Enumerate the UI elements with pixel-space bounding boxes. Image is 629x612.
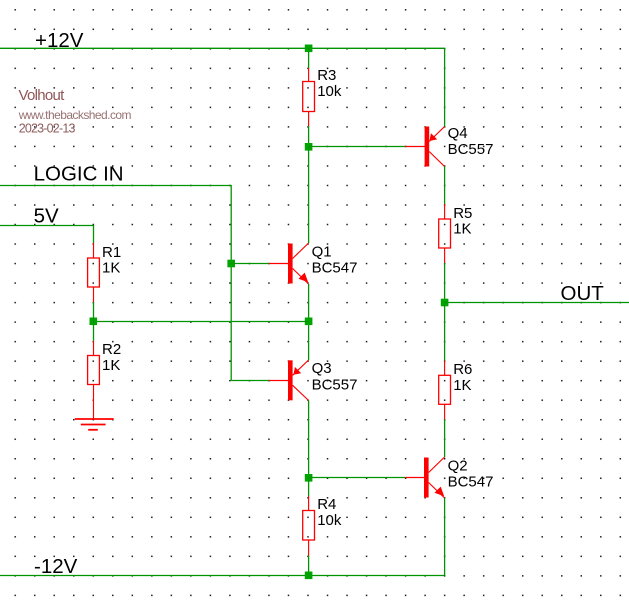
svg-text:BC547: BC547 bbox=[312, 260, 358, 277]
wire R3 bottom (green) bbox=[308, 126, 310, 147]
svg-text:www.thebackshed.com: www.thebackshed.com bbox=[18, 108, 132, 122]
wire 5V bbox=[0, 226, 94, 244]
svg-text:1K: 1K bbox=[453, 377, 471, 394]
svg-text:Q3: Q3 bbox=[312, 360, 332, 377]
svg-text:-12V: -12V bbox=[34, 555, 78, 578]
node junction OUT bbox=[441, 299, 449, 307]
svg-text:BC557: BC557 bbox=[448, 141, 494, 158]
svg-text:R3: R3 bbox=[317, 67, 336, 84]
wire Q2 emitter to -12V rail bbox=[444, 498, 446, 576]
svg-text:5V: 5V bbox=[34, 204, 59, 227]
wire Q1 base branch bbox=[231, 263, 269, 265]
svg-text:1K: 1K bbox=[453, 221, 471, 238]
wire Q4 collector to R5 bbox=[444, 167, 446, 205]
transistor Q2 bbox=[405, 457, 493, 498]
resistor R3 bbox=[303, 67, 342, 126]
wire R6 to Q2 collector bbox=[444, 419, 446, 457]
svg-text:R4: R4 bbox=[317, 496, 336, 513]
resistor R6 bbox=[439, 361, 473, 420]
wire Q3 base branch bbox=[231, 380, 269, 382]
svg-text:R6: R6 bbox=[453, 361, 472, 378]
svg-text:Q2: Q2 bbox=[448, 457, 468, 474]
wire center vertical R3node to Q1 collector bbox=[308, 147, 310, 244]
svg-text:BC547: BC547 bbox=[448, 474, 494, 491]
resistor R4 bbox=[303, 496, 342, 556]
transistor Q3 bbox=[269, 360, 357, 401]
wire mid node to R2 bbox=[93, 321, 95, 341]
svg-text:Q1: Q1 bbox=[312, 243, 332, 260]
svg-text:2023-02-13: 2023-02-13 bbox=[19, 122, 76, 136]
wire R4 bottom (green) bbox=[308, 556, 310, 576]
node junction +12V/R3 bbox=[305, 45, 313, 53]
svg-text:1K: 1K bbox=[102, 260, 120, 277]
resistor R5 bbox=[439, 204, 473, 263]
svg-text:R1: R1 bbox=[102, 244, 121, 261]
svg-text:+12V: +12V bbox=[35, 29, 84, 52]
node junction R4/-12V bbox=[305, 572, 313, 580]
svg-text:LOGIC IN: LOGIC IN bbox=[34, 163, 124, 186]
resistor R1 bbox=[88, 243, 122, 302]
wire OUT bbox=[445, 302, 629, 304]
node junction LOGICIN/Q1 base bbox=[227, 260, 235, 268]
svg-text:R2: R2 bbox=[102, 341, 121, 358]
wire +12V rail bbox=[0, 48, 445, 126]
ground bbox=[75, 419, 114, 430]
wire R5 to OUT node bbox=[444, 263, 446, 303]
node junction midwire/R1R2 bbox=[90, 318, 98, 326]
svg-text:1K: 1K bbox=[102, 357, 120, 374]
wire R3 top (green) bbox=[308, 48, 310, 68]
node junction R3/Q4-base bbox=[305, 143, 313, 151]
wire LOGIC IN bbox=[0, 186, 231, 381]
resistor R2 bbox=[88, 341, 122, 419]
wire Q3 collector to Q2 base node bbox=[308, 401, 310, 478]
svg-text:10k: 10k bbox=[317, 512, 342, 529]
wire OUT node to R6 bbox=[444, 303, 446, 361]
svg-text:Volhout: Volhout bbox=[19, 87, 66, 104]
wire R1 bottom to mid node bbox=[93, 302, 95, 321]
wire Q1 emitter to Q3 emitter bbox=[308, 284, 310, 360]
wire R4 top (green) bbox=[308, 478, 310, 497]
svg-text:10k: 10k bbox=[317, 83, 342, 100]
svg-text:BC557: BC557 bbox=[312, 376, 358, 393]
transistor Q1 bbox=[269, 243, 357, 284]
svg-text:Q4: Q4 bbox=[448, 125, 468, 142]
svg-text:R5: R5 bbox=[453, 205, 472, 222]
wire mid horizontal bbox=[94, 321, 309, 323]
wire Q2 base bbox=[309, 477, 405, 479]
svg-text:OUT: OUT bbox=[561, 282, 605, 305]
wire Q4 base bbox=[309, 146, 405, 148]
node junction Q2 base bbox=[305, 474, 313, 482]
node junction midwire/center bbox=[305, 318, 313, 326]
transistor Q4 bbox=[405, 125, 493, 167]
wire -12V rail bbox=[0, 575, 445, 577]
